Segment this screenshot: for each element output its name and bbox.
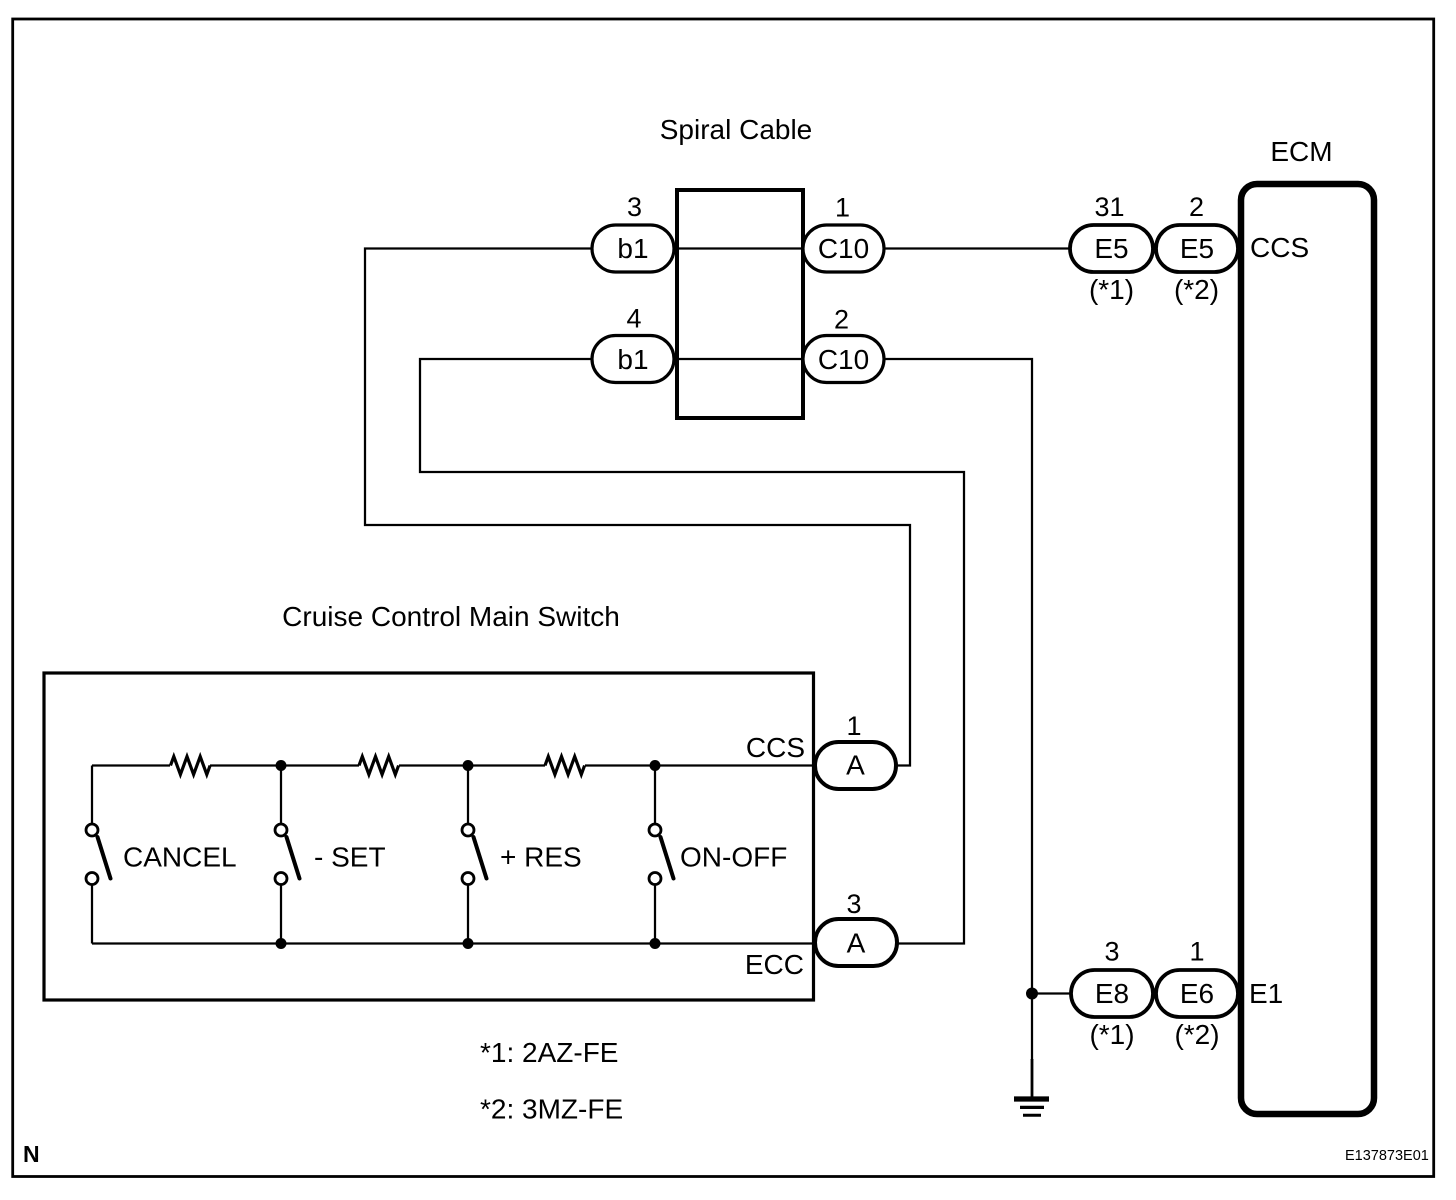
junction dot ON-OFF bottom [650, 938, 661, 949]
resistor R3 [545, 757, 585, 775]
connector C10 pin 1 [803, 225, 884, 272]
wire ground stem [1031, 1059, 1034, 1098]
svg-text:1: 1 [846, 711, 861, 741]
svg-text:ECM: ECM [1270, 136, 1332, 167]
svg-text:E1: E1 [1249, 978, 1283, 1009]
wire b1 pin 4 to switch connector A pin 3 [420, 359, 964, 944]
svg-text:3: 3 [627, 192, 642, 222]
svg-text:3: 3 [1104, 937, 1119, 967]
svg-text:E6: E6 [1180, 978, 1214, 1009]
connector E5 pin 2 [1156, 225, 1238, 272]
svg-text:CCS: CCS [1250, 232, 1309, 263]
wire CCS rail segment 2 [210, 764, 359, 766]
svg-text:ECC: ECC [745, 949, 804, 980]
svg-text:E8: E8 [1095, 978, 1129, 1009]
switch ON-OFF [649, 766, 787, 944]
svg-text:b1: b1 [617, 233, 648, 264]
junction dot -SET top [276, 760, 287, 771]
resistor R1 [171, 757, 211, 775]
svg-text:(*2): (*2) [1174, 274, 1219, 305]
svg-text:CANCEL: CANCEL [123, 842, 237, 873]
connector E6 pin 1 [1156, 970, 1238, 1017]
connector b1 pin 3 [592, 225, 674, 272]
svg-text:(*1): (*1) [1089, 274, 1134, 305]
spiral cable box [677, 190, 803, 418]
svg-text:Cruise Control Main Switch: Cruise Control Main Switch [282, 601, 620, 632]
junction dot +RES bottom [463, 938, 474, 949]
svg-text:1: 1 [1189, 937, 1204, 967]
ECM box [1241, 184, 1374, 1114]
wire spiral cable internal row 2 [677, 358, 803, 360]
connector E5 pin 31 [1070, 225, 1153, 272]
connector C10 pin 2 [803, 336, 884, 383]
cruise control main switch box [44, 673, 814, 1000]
junction dot +RES top [463, 760, 474, 771]
connector A pin 1 [815, 742, 896, 789]
svg-text:C10: C10 [818, 233, 869, 264]
wire C10 pin 2 to ground [884, 359, 1032, 1060]
svg-text:*2: 3MZ-FE: *2: 3MZ-FE [480, 1094, 623, 1125]
wire CCS rail segment 4 [585, 764, 815, 766]
svg-text:E5: E5 [1094, 233, 1128, 264]
svg-text:2: 2 [1189, 192, 1204, 222]
svg-text:1: 1 [835, 193, 850, 223]
svg-text:2: 2 [834, 305, 849, 335]
svg-text:E5: E5 [1180, 233, 1214, 264]
ground [1014, 1099, 1049, 1115]
svg-text:E137873E01: E137873E01 [1345, 1148, 1429, 1164]
svg-text:(*2): (*2) [1174, 1019, 1219, 1050]
svg-text:+ RES: + RES [500, 842, 582, 873]
connector A pin 3 [815, 919, 897, 966]
svg-text:A: A [846, 750, 865, 781]
wire CCS rail segment 1 [92, 764, 170, 766]
svg-text:- SET: - SET [314, 842, 386, 873]
connector b1 pin 4 [592, 336, 674, 383]
resistor R2 [359, 757, 399, 775]
junction dot ON-OFF top [650, 760, 661, 771]
switch CANCEL [86, 766, 237, 944]
wire junction to E8 [1032, 992, 1072, 994]
svg-text:31: 31 [1094, 192, 1124, 222]
svg-text:3: 3 [846, 889, 861, 919]
wire C10 pin 1 to E5 [884, 247, 1071, 249]
junction dot -SET bottom [276, 938, 287, 949]
wire spiral cable internal row 1 [677, 247, 803, 249]
svg-text:*1: 2AZ-FE: *1: 2AZ-FE [480, 1037, 618, 1068]
svg-text:A: A [847, 928, 866, 959]
svg-text:CCS: CCS [746, 732, 805, 763]
connector E8 pin 3 [1071, 970, 1153, 1017]
switch - SET [275, 766, 386, 944]
wire CCS rail segment 3 [399, 764, 545, 766]
svg-text:Spiral Cable: Spiral Cable [660, 114, 813, 145]
wire ECC rail [92, 942, 815, 944]
svg-text:N: N [23, 1141, 40, 1167]
svg-text:(*1): (*1) [1089, 1019, 1134, 1050]
svg-text:ON-OFF: ON-OFF [680, 842, 787, 873]
junction dot ground branch to E8 [1026, 988, 1038, 1000]
wire b1 pin 3 to switch connector A pin 1 [365, 249, 910, 766]
svg-text:C10: C10 [818, 344, 869, 375]
svg-text:4: 4 [626, 304, 641, 334]
svg-text:b1: b1 [617, 344, 648, 375]
switch + RES [462, 766, 582, 944]
